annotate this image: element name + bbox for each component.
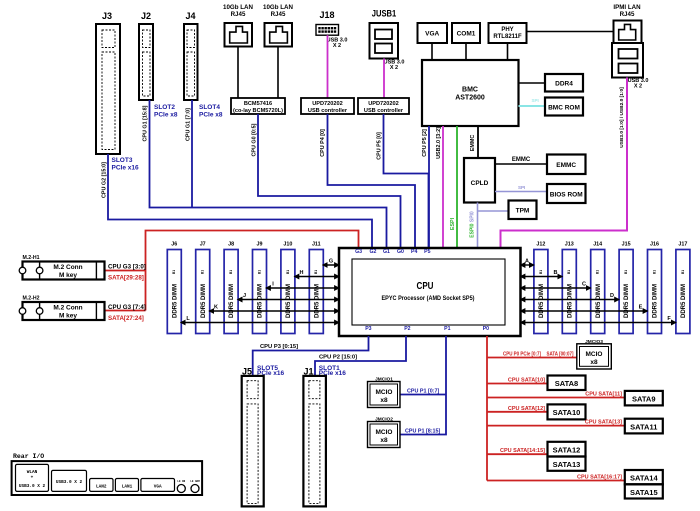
- svg-text:SATA[29:28]: SATA[29:28]: [108, 275, 144, 282]
- wire JUSB1 to UPD720202 #2 (magenta): [383, 59, 385, 99]
- svg-text:CPU SATA[13]: CPU SATA[13]: [585, 420, 622, 426]
- svg-text:CPU P0 PCIe [0:7]: CPU P0 PCIe [0:7]: [503, 352, 541, 358]
- svg-text:B1: B1: [624, 270, 628, 274]
- svg-text:DDR5 DIMM: DDR5 DIMM: [201, 284, 207, 318]
- svg-text:SATA10: SATA10: [553, 408, 581, 417]
- svg-text:x8: x8: [590, 359, 598, 366]
- svg-text:CPU SATA[16:17]: CPU SATA[16:17]: [577, 475, 622, 481]
- svg-text:BMC ROM: BMC ROM: [548, 105, 580, 112]
- slot J3: [96, 11, 139, 172]
- svg-text:USB3.0 [1:0] / USB2.0 [1:0]: USB3.0 [1:0] / USB2.0 [1:0]: [619, 87, 625, 148]
- SATA12: [548, 442, 586, 457]
- svg-text:J9: J9: [257, 242, 263, 248]
- svg-text:J18: J18: [319, 10, 334, 20]
- svg-text:DDR5 DIMM: DDR5 DIMM: [624, 284, 630, 318]
- svg-text:X 2: X 2: [390, 65, 398, 71]
- svg-text:MCIO: MCIO: [586, 351, 603, 358]
- svg-text:A: A: [525, 259, 529, 265]
- wire UPD720202 #1 to CPU P4 (blue): [328, 114, 416, 248]
- wire PHY to BMC: [507, 43, 509, 60]
- BMC AST2600: [422, 60, 519, 126]
- SATA13: [548, 457, 586, 471]
- svg-text:J7: J7: [200, 242, 206, 248]
- svg-text:J14: J14: [593, 242, 602, 248]
- wire BMC to CPU P5 (blue): [428, 126, 430, 248]
- svg-text:(co-lay BCM5720L): (co-lay BCM5720L): [233, 108, 283, 114]
- svg-text:DDR5 DIMM: DDR5 DIMM: [229, 284, 235, 318]
- svg-text:J2: J2: [141, 11, 151, 21]
- wire BMC to BMC ROM (SPI, cyan): [519, 105, 546, 107]
- svg-text:DDR5 DIMM: DDR5 DIMM: [286, 284, 292, 318]
- wire BMC ESPI to CPU (green): [456, 126, 458, 248]
- memory channel F: [521, 316, 676, 323]
- svg-text:EPYC Processor (AMD Socket SP5: EPYC Processor (AMD Socket SP5): [382, 295, 475, 302]
- memory channel G: [323, 259, 339, 266]
- svg-text:M.2-H2: M.2-H2: [23, 296, 40, 302]
- svg-text:DDR5 DIMM: DDR5 DIMM: [172, 284, 178, 318]
- svg-text:ESPI0 SPI0: ESPI0 SPI0: [470, 211, 476, 238]
- DIMM slot J13: [562, 242, 576, 334]
- BCM57416 LAN controller: [231, 98, 285, 114]
- DIMM slot J16: [648, 242, 662, 334]
- svg-text:CPU P4 [0]: CPU P4 [0]: [320, 129, 326, 157]
- slot J2: [139, 11, 178, 119]
- DIMM slot J8: [224, 242, 238, 334]
- svg-text:IPMI LAN: IPMI LAN: [613, 4, 641, 11]
- DIMM slot J6: [167, 242, 181, 334]
- wire CPLD to BIOS ROM (SPI, lavender): [495, 191, 547, 193]
- svg-text:Rear I/O: Rear I/O: [13, 453, 44, 460]
- svg-text:J3: J3: [102, 11, 112, 21]
- memory channel J: [238, 293, 339, 300]
- svg-text:B1: B1: [539, 270, 543, 274]
- svg-text:CPU P1 [0:7]: CPU P1 [0:7]: [407, 389, 440, 395]
- svg-text:ESPI: ESPI: [450, 217, 456, 230]
- svg-text:USB controller: USB controller: [308, 108, 348, 114]
- svg-text:LAN2: LAN2: [96, 485, 107, 490]
- rear VGA port: [141, 479, 175, 492]
- svg-text:M.2 Conn: M.2 Conn: [53, 264, 82, 271]
- svg-text:SATA[27:24]: SATA[27:24]: [108, 315, 144, 322]
- svg-text:P0: P0: [483, 326, 489, 332]
- SATA9: [625, 391, 663, 406]
- svg-text:CPU: CPU: [417, 280, 434, 292]
- svg-text:USB3.0 X 2: USB3.0 X 2: [56, 480, 83, 485]
- svg-text:E: E: [639, 305, 643, 311]
- svg-text:USB2.0 [3:2]: USB2.0 [3:2]: [436, 127, 442, 159]
- DIMM slot J17: [676, 242, 690, 334]
- memory channel H: [294, 270, 339, 277]
- svg-text:x8: x8: [380, 437, 388, 444]
- svg-text:DDR5 DIMM: DDR5 DIMM: [567, 284, 573, 318]
- svg-text:EMMC: EMMC: [470, 135, 476, 152]
- svg-text:SATA12: SATA12: [553, 446, 581, 455]
- svg-text:SATA11: SATA11: [630, 422, 657, 431]
- wire RJ45-2 to BCM57416: [277, 47, 279, 99]
- svg-text:PCIe x16: PCIe x16: [112, 165, 139, 172]
- svg-text:J8: J8: [228, 242, 234, 248]
- svg-text:B1: B1: [172, 270, 176, 274]
- wire P0 to SATA11 (red): [487, 425, 625, 427]
- wire CPU P0 trunk (red): [486, 336, 488, 481]
- wire P0 to SATA9 (red): [487, 397, 625, 399]
- svg-text:CPU SATA[14:15]: CPU SATA[14:15]: [500, 448, 545, 454]
- svg-text:RJ45: RJ45: [271, 11, 286, 18]
- svg-text:J10: J10: [283, 242, 292, 248]
- svg-text:LE ON: LE ON: [177, 480, 185, 483]
- memory channel I: [266, 282, 339, 289]
- svg-text:TPM: TPM: [516, 208, 530, 215]
- USB controller UPD720202 #2: [358, 98, 409, 114]
- svg-text:B1: B1: [567, 270, 571, 274]
- BIOS ROM: [547, 184, 586, 203]
- svg-text:J6: J6: [171, 242, 177, 248]
- memory channel D: [521, 293, 620, 300]
- svg-text:CPU SATA[10]: CPU SATA[10]: [508, 378, 545, 384]
- svg-text:LE ARM: LE ARM: [190, 480, 200, 483]
- svg-text:X 2: X 2: [634, 84, 642, 90]
- svg-text:x8: x8: [380, 397, 388, 404]
- wire IPMI USB to CPU (magenta): [501, 78, 628, 249]
- wire J4 to CPU G1 (blue): [191, 100, 193, 208]
- svg-text:P3: P3: [365, 326, 371, 332]
- svg-text:J13: J13: [565, 242, 574, 248]
- svg-text:RTL8211F: RTL8211F: [493, 34, 522, 40]
- wire RJ45-1 to BCM57416: [237, 47, 239, 99]
- svg-text:DDR4: DDR4: [555, 81, 573, 88]
- slot J1: [303, 365, 346, 507]
- wire CPLD to TPM and CPU (ESPI0 SPI0, lavender): [477, 203, 479, 249]
- memory channel K: [209, 305, 339, 312]
- svg-text:CPU G1 [15:8]: CPU G1 [15:8]: [142, 105, 148, 141]
- rear WLAN/USB3.0 port: [16, 464, 49, 491]
- svg-text:MCIO: MCIO: [376, 429, 393, 436]
- VGA connector: [418, 23, 448, 43]
- svg-text:P1: P1: [444, 326, 450, 332]
- 10Gb LAN RJ45 connector 2: [263, 4, 293, 47]
- DIMM slot J11: [309, 242, 323, 334]
- svg-text:M key: M key: [59, 272, 77, 279]
- 10Gb LAN RJ45 connector 1: [223, 4, 253, 47]
- wire CPU P3 to SLOT5 (blue): [253, 336, 369, 376]
- svg-text:BIOS ROM: BIOS ROM: [550, 192, 583, 199]
- svg-text:DDR5 DIMM: DDR5 DIMM: [681, 284, 687, 318]
- rear USB3.0 port: [52, 470, 87, 491]
- slot J5: [242, 365, 285, 507]
- DIMM slot J10: [281, 242, 295, 334]
- wire P0 to SATA8 (red): [487, 383, 548, 385]
- svg-text:CPU G1 [7:0]: CPU G1 [7:0]: [185, 108, 191, 141]
- svg-text:CPU SATA[11]: CPU SATA[11]: [585, 392, 622, 398]
- wire CPLD to EMMC: [495, 163, 547, 165]
- svg-text:B1: B1: [652, 270, 656, 274]
- svg-text:SATA9: SATA9: [632, 394, 655, 403]
- wire UPD720202 #2 to CPU P5 (blue): [384, 114, 429, 248]
- wire J2 to CPU G1 (blue): [150, 100, 387, 248]
- svg-text:SATA [00:07]: SATA [00:07]: [547, 352, 574, 358]
- svg-text:EMMC: EMMC: [512, 157, 531, 163]
- svg-text:AST2600: AST2600: [455, 95, 485, 102]
- svg-text:J17: J17: [678, 242, 687, 248]
- wire J18 to UPD720202 #1 (magenta): [327, 35, 329, 98]
- wire CPU P2 to SLOT1 (blue): [315, 336, 406, 376]
- MCIO connector JMCIO3: [577, 339, 612, 369]
- svg-text:SPI: SPI: [532, 98, 539, 103]
- memory channel C: [521, 282, 591, 289]
- CPLD: [464, 158, 495, 203]
- svg-text:J: J: [243, 293, 246, 299]
- svg-text:CPLD: CPLD: [471, 180, 489, 187]
- svg-text:M.2-H1: M.2-H1: [23, 255, 40, 261]
- wire P0 to SATA14/15 (red): [487, 480, 625, 482]
- svg-text:DDR5 DIMM: DDR5 DIMM: [258, 284, 264, 318]
- COM1 connector: [452, 23, 480, 43]
- svg-text:USB controller: USB controller: [364, 108, 404, 114]
- svg-text:DDR5 DIMM: DDR5 DIMM: [653, 284, 659, 318]
- DIMM slot J12: [534, 242, 548, 334]
- svg-text:DDR5 DIMM: DDR5 DIMM: [314, 284, 320, 318]
- svg-text:SATA8: SATA8: [555, 379, 578, 388]
- svg-text:EMMC: EMMC: [556, 162, 576, 169]
- memory channel E: [521, 305, 648, 312]
- svg-text:G3: G3: [355, 249, 362, 255]
- svg-text:JUSB1: JUSB1: [372, 9, 397, 19]
- DIMM slot J15: [619, 242, 633, 334]
- svg-text:G1: G1: [383, 249, 390, 255]
- connector JUSB1: [370, 9, 405, 72]
- DIMM slot J9: [253, 242, 267, 334]
- svg-text:VGA: VGA: [154, 485, 162, 490]
- TPM: [509, 201, 537, 220]
- memory channel A: [521, 259, 534, 266]
- svg-text:RJ45: RJ45: [620, 11, 635, 18]
- svg-text:BCM57416: BCM57416: [244, 101, 272, 107]
- svg-text:P5: P5: [424, 249, 430, 255]
- svg-text:USB3.0 X 2: USB3.0 X 2: [19, 484, 46, 489]
- svg-text:RJ45: RJ45: [231, 11, 246, 18]
- svg-text:CPU G3 [3:0]: CPU G3 [3:0]: [108, 264, 146, 271]
- wire BMC to DDR4: [519, 82, 546, 84]
- svg-text:WLAN: WLAN: [27, 470, 38, 475]
- svg-text:+: +: [31, 476, 34, 481]
- svg-text:SATA15: SATA15: [630, 488, 658, 497]
- svg-text:CPU P2 [15:0]: CPU P2 [15:0]: [319, 355, 357, 361]
- svg-text:DDR5 DIMM: DDR5 DIMM: [539, 284, 545, 318]
- svg-text:B1: B1: [201, 270, 205, 274]
- svg-text:M key: M key: [59, 313, 77, 320]
- svg-text:UPD720202: UPD720202: [312, 101, 342, 107]
- svg-text:X 2: X 2: [333, 43, 341, 49]
- SATA10: [548, 404, 586, 419]
- svg-text:CPU P1 [8:15]: CPU P1 [8:15]: [405, 429, 441, 435]
- svg-text:G: G: [329, 259, 333, 265]
- svg-text:K: K: [214, 305, 218, 311]
- svg-text:SATA13: SATA13: [553, 460, 581, 469]
- Rear I/O panel: [12, 453, 203, 495]
- M.2 connector H2: [19, 296, 146, 323]
- wire P0 to SATA12/13 (red): [487, 453, 548, 455]
- wire M.2-H1 (red): [105, 270, 146, 272]
- svg-text:H: H: [300, 270, 304, 276]
- svg-text:LAN1: LAN1: [122, 485, 133, 490]
- CPU EPYC Processor: [339, 248, 521, 336]
- MCIO connector JMCIO1: [368, 376, 401, 407]
- svg-text:UPD720202: UPD720202: [368, 101, 398, 107]
- svg-text:PCIe x8: PCIe x8: [199, 112, 223, 119]
- SATA15: [625, 484, 663, 498]
- svg-text:10Gb LAN: 10Gb LAN: [263, 4, 293, 11]
- svg-text:D: D: [610, 293, 614, 299]
- svg-text:MCIO: MCIO: [376, 389, 393, 396]
- svg-text:SLOT4: SLOT4: [199, 104, 220, 111]
- DIMM slot J7: [196, 242, 210, 334]
- svg-text:SATA14: SATA14: [630, 474, 658, 483]
- svg-text:DDR5 DIMM: DDR5 DIMM: [596, 284, 602, 318]
- svg-text:CPU P5 [0]: CPU P5 [0]: [376, 132, 382, 160]
- wire BMC EMMC to CPLD (black): [477, 126, 479, 158]
- svg-text:B1: B1: [257, 270, 261, 274]
- wire BCM57416 to CPU G0 (blue): [258, 114, 401, 248]
- wire CPU G3 to M.2 (red): [146, 231, 359, 311]
- svg-text:BMC: BMC: [462, 87, 478, 94]
- wire PHY to IPMI LAN RJ45: [527, 31, 614, 33]
- svg-text:SLOT2: SLOT2: [154, 104, 175, 111]
- svg-text:B: B: [554, 270, 558, 276]
- svg-text:B1: B1: [314, 270, 318, 274]
- SATA14: [625, 470, 663, 484]
- BMC ROM: [545, 98, 583, 116]
- svg-text:B1: B1: [596, 270, 600, 274]
- svg-text:J4: J4: [185, 11, 195, 21]
- EMMC: [547, 155, 586, 175]
- svg-text:CPU G0 [0:5]: CPU G0 [0:5]: [251, 123, 257, 156]
- svg-text:B1: B1: [286, 270, 290, 274]
- memory channel B: [521, 270, 563, 277]
- svg-text:J16: J16: [650, 242, 659, 248]
- MCIO connector JMCIO2: [368, 416, 401, 447]
- svg-text:C: C: [582, 282, 586, 288]
- svg-text:CPU SATA[12]: CPU SATA[12]: [508, 406, 545, 412]
- svg-text:J11: J11: [312, 242, 321, 248]
- slot J4: [184, 11, 223, 119]
- wire BMC USB2.0 [3:2] to CPU (magenta): [442, 126, 444, 248]
- DDR4: [545, 74, 583, 92]
- svg-text:PCIe x8: PCIe x8: [154, 112, 178, 119]
- svg-text:COM1: COM1: [457, 31, 476, 38]
- wire J3 to CPU G2 (blue): [108, 154, 372, 248]
- svg-text:P2: P2: [404, 326, 410, 332]
- svg-text:CPU P5 [2]: CPU P5 [2]: [422, 129, 428, 157]
- SATA11: [625, 419, 663, 434]
- wire M.2-H2 (red): [105, 310, 146, 312]
- svg-text:G0: G0: [397, 249, 404, 255]
- rear LAN2 port: [90, 479, 113, 492]
- svg-text:B1: B1: [681, 270, 685, 274]
- header J18: [316, 10, 347, 49]
- svg-text:PHY: PHY: [501, 27, 513, 33]
- svg-text:M.2 Conn: M.2 Conn: [53, 305, 82, 312]
- svg-text:SPI: SPI: [518, 185, 525, 190]
- IPMI LAN RJ45 connector: [612, 4, 648, 90]
- svg-text:CPU G3 [7:4]: CPU G3 [7:4]: [108, 304, 146, 311]
- svg-text:B1: B1: [229, 270, 233, 274]
- wire P0 to SATA10 (red): [487, 411, 548, 413]
- svg-text:CPU G2 [15:0]: CPU G2 [15:0]: [101, 162, 107, 198]
- svg-text:J15: J15: [622, 242, 631, 248]
- svg-text:G2: G2: [369, 249, 376, 255]
- M.2 connector H1: [19, 255, 146, 282]
- rear LAN1 port: [115, 479, 138, 492]
- PHY RTL8211F: [489, 23, 527, 43]
- wire P0 to JMCIO3 (red): [487, 357, 577, 359]
- wire COM1 to BMC: [465, 43, 467, 60]
- svg-text:CPU P3 [0:15]: CPU P3 [0:15]: [260, 344, 298, 350]
- svg-text:10Gb LAN: 10Gb LAN: [223, 4, 253, 11]
- svg-text:P4: P4: [411, 249, 417, 255]
- svg-text:J12: J12: [536, 242, 545, 248]
- memory channel L: [181, 316, 339, 323]
- wire VGA to BMC: [431, 43, 433, 60]
- wire CPU P1 to JMCIO1/JMCIO2 (blue): [400, 336, 446, 435]
- USB controller UPD720202 #1: [301, 98, 354, 114]
- DIMM slot J14: [591, 242, 605, 334]
- svg-text:VGA: VGA: [425, 31, 439, 38]
- SATA8: [548, 376, 586, 391]
- svg-text:SLOT3: SLOT3: [112, 157, 133, 164]
